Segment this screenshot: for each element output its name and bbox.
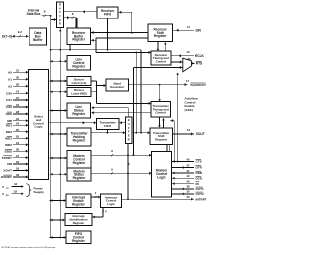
- wire bus to Transmitter Holding Register: [50, 133, 68, 136]
- svg-text:MR: MR: [7, 119, 13, 123]
- block Baud Generator: [106, 79, 129, 91]
- block Receiver Buffer Register: [67, 28, 91, 45]
- svg-text:Register: Register: [73, 221, 85, 225]
- svg-text:14: 14: [16, 89, 20, 93]
- svg-text:34: 34: [16, 117, 20, 121]
- svg-text:29: 29: [16, 82, 20, 86]
- pin RI: [172, 179, 200, 185]
- wire internal data bus to bus rail A: [42, 9, 52, 17]
- wire transmit buffer box to transmitter FIFO: [120, 121, 126, 124]
- svg-text:BAUDOUT: BAUDOUT: [191, 83, 207, 87]
- svg-text:ADS: ADS: [5, 112, 12, 116]
- svg-text:41: 41: [186, 169, 190, 173]
- wire receiver control down to transmit line: [135, 52, 137, 133]
- svg-text:Register: Register: [72, 38, 86, 42]
- block Select and Control Logic: [29, 70, 49, 180]
- svg-text:Logic: Logic: [107, 202, 115, 206]
- svg-text:CC: CC: [6, 188, 10, 190]
- svg-text:OUT1: OUT1: [196, 187, 205, 191]
- svg-text:DSR: DSR: [196, 171, 203, 175]
- svg-text:30: 30: [16, 75, 20, 79]
- label Autoflow Control Enable (AFE): [185, 97, 199, 112]
- svg-text:SOUT: SOUT: [196, 132, 205, 136]
- svg-text:B: B: [128, 118, 130, 122]
- wire CTS up to transmitter timing: [170, 119, 175, 162]
- svg-text:Register: Register: [73, 139, 87, 143]
- transmit buffer box (vertical): [126, 117, 133, 144]
- svg-text:(AFE): (AFE): [185, 108, 193, 112]
- block Interrupt Identification Register: [65, 214, 92, 226]
- svg-text:NOTE A: Terminal numbers show: NOTE A: Terminal numbers shown are for t…: [2, 246, 57, 249]
- wire bus to FIFO Control Register: [50, 236, 67, 239]
- svg-text:31: 31: [16, 68, 20, 72]
- svg-text:15: 15: [16, 96, 20, 100]
- pin SIN: [173, 25, 202, 32]
- wire interrupt control logic to interrupt identification register: [92, 208, 107, 219]
- wire transmitter shift register to modem control logic: [167, 144, 170, 151]
- svg-text:9-2: 9-2: [18, 30, 22, 34]
- wire transmitter shift to timing connector up: [162, 118, 165, 128]
- svg-text:Register: Register: [72, 239, 86, 243]
- svg-text:DDIS: DDIS: [5, 149, 12, 153]
- block Receiver FIFO: [97, 7, 118, 18]
- svg-text:XOUT: XOUT: [3, 169, 12, 173]
- wire stub into receiver buffer register: [91, 39, 96, 42]
- svg-text:21: 21: [16, 141, 20, 145]
- pin WR1: [5, 134, 28, 140]
- wire receive data line into receiver buffer register: [91, 31, 149, 34]
- block Transmitter Holding Register: [67, 128, 91, 146]
- svg-text:32: 32: [16, 173, 20, 177]
- internal data bus box (vertical): [57, 2, 64, 28]
- svg-text:Register: Register: [73, 161, 87, 165]
- wire stub into internal bus box: [51, 16, 57, 21]
- block Modem Control Logic: [152, 152, 172, 198]
- pin A2: [8, 82, 28, 88]
- svg-text:A2: A2: [8, 84, 12, 88]
- pin D(7-0): [2, 30, 29, 38]
- pin DCD: [172, 174, 203, 180]
- svg-text:22: 22: [14, 189, 18, 193]
- note A: [2, 246, 57, 249]
- wire transmitter holding register to transmit buffer box: [91, 130, 125, 134]
- block Modem Control Register: [67, 151, 91, 169]
- svg-text:DCD: DCD: [196, 177, 203, 181]
- wire divisor to transmitter timing and control: [97, 102, 152, 105]
- svg-text:33: 33: [186, 195, 190, 199]
- svg-text:26: 26: [16, 147, 20, 151]
- svg-text:CS2: CS2: [6, 105, 12, 109]
- svg-text:RI: RI: [196, 182, 199, 186]
- svg-text:43: 43: [186, 179, 190, 183]
- svg-text:FIFO: FIFO: [104, 12, 112, 16]
- svg-text:U: U: [128, 122, 130, 126]
- internal data bus label: [27, 9, 41, 16]
- wire receiver timing to RTS mux: [171, 61, 183, 64]
- svg-text:Register: Register: [72, 112, 86, 116]
- svg-text:TXRDY: TXRDY: [2, 156, 13, 160]
- wire down to transmit data line: [140, 50, 142, 134]
- svg-text:38: 38: [186, 185, 190, 189]
- block Interrupt Control Logic: [101, 194, 122, 208]
- svg-text:Register: Register: [73, 176, 87, 180]
- svg-text:11: 11: [187, 25, 190, 29]
- svg-text:25: 25: [16, 128, 20, 132]
- block Divisor Latch (LS): [67, 77, 91, 86]
- mux autoflow (trapezoid): [183, 58, 192, 72]
- svg-text:B: B: [59, 3, 61, 7]
- svg-text:16: 16: [16, 103, 20, 107]
- svg-text:RXRDY: RXRDY: [1, 175, 13, 179]
- block Receiver Timing and Control: [151, 51, 171, 65]
- svg-text:Register: Register: [72, 64, 86, 68]
- svg-text:17: 17: [186, 79, 190, 83]
- pin VCC: [2, 182, 24, 190]
- svg-text:Register: Register: [154, 34, 168, 38]
- bus rail A (vertical): [50, 16, 52, 238]
- wire transmitter timing to line status register: [91, 111, 150, 114]
- pin A1: [8, 75, 28, 81]
- wire baud line down to transmitter timing: [158, 85, 161, 102]
- pin DDIS: [5, 147, 29, 153]
- svg-text:E: E: [59, 18, 61, 22]
- pin CS1: [6, 96, 29, 102]
- svg-text:CTS: CTS: [196, 160, 202, 164]
- wire autoflow enable up to mux: [176, 73, 179, 163]
- svg-text:RCLK: RCLK: [195, 54, 205, 58]
- svg-text:Control: Control: [156, 59, 167, 63]
- pin XIN: [7, 160, 29, 166]
- pin RXRDY: [1, 173, 28, 179]
- pin RTS: [187, 57, 202, 65]
- svg-text:35: 35: [186, 190, 190, 194]
- wire modem control register to modem control logic (8): [91, 149, 152, 156]
- block Transmitter FIFO: [97, 119, 120, 130]
- pin OUT2: [172, 190, 205, 196]
- svg-text:19: 19: [16, 167, 20, 171]
- wire modem status register to modem control logic (6): [91, 167, 151, 174]
- pin MR: [7, 117, 28, 123]
- svg-text:Logic: Logic: [35, 125, 43, 129]
- bus rail B (vertical): [59, 28, 62, 238]
- svg-text:24: 24: [16, 122, 20, 126]
- wire bus to Modem Status Register: [50, 173, 68, 176]
- pin BAUDOUT: [186, 79, 206, 87]
- svg-text:Supply: Supply: [34, 190, 45, 194]
- pin DSR: [172, 169, 203, 175]
- pin DTR: [172, 163, 203, 169]
- svg-text:CS0: CS0: [6, 91, 12, 95]
- pin WR2: [5, 141, 28, 147]
- svg-text:FIFO: FIFO: [104, 124, 111, 128]
- wire transmit buffer to line status register: [91, 106, 128, 116]
- wire interrupt enable to interrupt control logic (4): [91, 191, 101, 198]
- svg-text:Logic: Logic: [157, 176, 166, 180]
- svg-text:OUT2: OUT2: [196, 192, 205, 196]
- pin A0: [8, 68, 28, 74]
- pin TXRDY: [2, 154, 29, 160]
- svg-text:40: 40: [186, 157, 190, 161]
- wire bus to Divisor Latch (LS): [50, 80, 68, 83]
- svg-text:U: U: [59, 6, 61, 10]
- label Power Supply: [34, 186, 45, 194]
- svg-text:44: 44: [14, 182, 18, 186]
- pin CTS: [172, 157, 202, 163]
- block Divisor Latch (MS): [67, 87, 91, 96]
- wire receiver FIFO down to receive data line: [107, 18, 109, 50]
- block Line Control Register: [67, 56, 91, 71]
- pin VSS: [2, 189, 24, 197]
- wire to receiver timing and control: [96, 51, 151, 54]
- svg-text:10: 10: [186, 50, 190, 54]
- svg-text:D(7–0): D(7–0): [2, 34, 12, 38]
- svg-text:20: 20: [16, 134, 20, 138]
- pin ADS: [5, 110, 28, 116]
- pin SOUT: [173, 128, 205, 136]
- pin XOUT: [3, 167, 28, 173]
- svg-text:RD1: RD1: [6, 124, 12, 128]
- svg-text:Register: Register: [155, 137, 168, 141]
- svg-text:37: 37: [186, 163, 190, 167]
- pin CS2: [6, 103, 29, 109]
- wire select logic to transmitter FIFO: [49, 121, 97, 124]
- svg-text:RD2: RD2: [6, 130, 12, 134]
- svg-text:CS1: CS1: [6, 98, 12, 102]
- wire bus to Interrupt Enable Register: [50, 199, 67, 202]
- block Data Bus Buffer: [29, 28, 46, 45]
- svg-text:R: R: [59, 22, 61, 26]
- wire transmit buffer box to transmitter shift register: [132, 131, 150, 134]
- svg-text:18: 18: [16, 160, 20, 164]
- svg-text:Control: Control: [155, 111, 166, 115]
- block Modem Status Register: [67, 168, 91, 181]
- svg-text:R: R: [128, 138, 130, 142]
- svg-text:27: 27: [16, 154, 20, 158]
- wire receiver shift register status line: [96, 38, 148, 53]
- pin RD2: [6, 128, 29, 134]
- wire bus to Line Status Register: [50, 109, 68, 112]
- svg-text:A0: A0: [8, 70, 12, 74]
- wire modem control register AFE select to mux: [133, 66, 183, 156]
- block Transmitter Shift Register: [150, 128, 173, 144]
- svg-text:RTS: RTS: [196, 62, 202, 66]
- svg-text:E: E: [128, 134, 130, 138]
- pin RCLK: [171, 50, 205, 58]
- wire transmitter timing to shift register connector down: [158, 117, 161, 128]
- svg-text:42: 42: [186, 174, 190, 178]
- wire transmit buffer down to interrupt line: [127, 144, 130, 201]
- svg-text:Generator: Generator: [110, 85, 125, 89]
- wire internal bus box to receiver buffer register (8): [64, 12, 77, 28]
- svg-text:Latch (LS): Latch (LS): [72, 81, 87, 85]
- wire baud generator BAUDOUT line: [128, 83, 188, 86]
- block Line Status Register: [67, 103, 91, 118]
- svg-text:28: 28: [16, 110, 20, 114]
- block FIFO Control Register: [66, 231, 91, 244]
- wire receiver shift register to receiver FIFO: [118, 11, 133, 34]
- pin CS0: [6, 89, 29, 95]
- wire receiver shift to timing connector down: [157, 42, 160, 52]
- svg-text:DTR: DTR: [196, 166, 203, 170]
- wire bus to Divisor Latch (MS): [50, 90, 68, 93]
- svg-text:Data Bus: Data Bus: [27, 12, 41, 16]
- block Receiver Shift Register: [148, 24, 173, 42]
- wire bus to Modem Control Register: [50, 157, 68, 160]
- svg-text:Register: Register: [72, 202, 86, 206]
- pin RD1: [6, 122, 29, 128]
- wire bus to Interrupt Identification Register: [50, 219, 66, 222]
- block Interrupt Enable Register: [66, 194, 91, 208]
- svg-text:WR2: WR2: [5, 143, 12, 147]
- wire receiver FIFO to internal bus box: [64, 10, 98, 13]
- svg-text:Buffer: Buffer: [33, 38, 43, 42]
- wire divisor latches to baud generator: [91, 81, 106, 103]
- pin INTRPT: [122, 195, 207, 201]
- svg-text:Latch (MS): Latch (MS): [71, 92, 86, 96]
- svg-text:INTRPT: INTRPT: [196, 197, 207, 201]
- svg-text:36: 36: [187, 57, 191, 61]
- svg-text:A1: A1: [8, 77, 12, 81]
- svg-text:XIN: XIN: [7, 162, 13, 166]
- wire timing to receiver shift connector up: [164, 42, 167, 51]
- wire bus to Line Control Register: [50, 60, 68, 63]
- brace power supply: [26, 184, 31, 197]
- wire bus to receiver buffer register bottom: [50, 45, 141, 51]
- block Transmitter Timing and Control: [151, 102, 171, 118]
- svg-text:WR1: WR1: [5, 136, 12, 140]
- svg-text:13: 13: [187, 128, 191, 132]
- pin OUT1: [172, 185, 205, 191]
- svg-text:SIN: SIN: [196, 28, 202, 32]
